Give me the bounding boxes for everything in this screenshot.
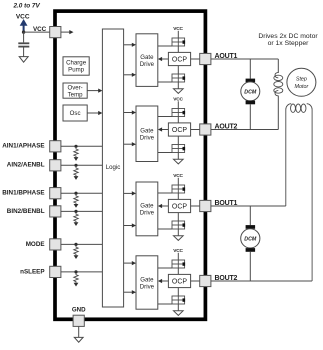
label AOUT2: [215, 123, 238, 130]
svg-text:Pump: Pump: [68, 67, 85, 74]
wire gate drive to high-side gate (AOUT1): [158, 45, 172, 47]
arrow logic to gate drive 3 (b): [124, 223, 136, 227]
net label VCC (BOUT2 high side): [173, 248, 183, 254]
net label VCC (AOUT1 high side): [173, 26, 183, 32]
wire gate drive to low-side gate (BOUT2): [158, 303, 172, 305]
wire gate drive to low-side gate (AOUT2): [158, 152, 172, 154]
OCP block (AOUT2): [168, 123, 190, 136]
pulldown resistor BIN1/BPHASE: [74, 195, 79, 208]
wire BOUT1 to DC motor M2: [249, 206, 251, 225]
wire node to capacitor: [23, 32, 25, 42]
IC block outline (motor driver): [55, 11, 205, 319]
motor M2 brush bottom: [246, 248, 256, 252]
arrow VCC into IC: [61, 30, 74, 34]
wire VCC to high-side FET (BOUT1): [177, 178, 179, 185]
net label VCC (AOUT2 high side): [173, 97, 183, 103]
wire low-side FET to ground (AOUT2): [177, 153, 179, 160]
pin AIN2/AENBL: [50, 160, 61, 171]
label nSLEEP: [20, 268, 45, 275]
label AOUT1: [215, 53, 238, 60]
svg-text:DCM: DCM: [244, 236, 257, 242]
logic block: [102, 29, 123, 307]
junction node VCC: [22, 30, 25, 33]
transistor low-side FET (AOUT2): [172, 145, 185, 153]
svg-text:OCP: OCP: [172, 278, 188, 285]
transistor low-side FET (AOUT1): [172, 74, 185, 82]
transistor low-side FET (BOUT1): [172, 221, 185, 229]
wire low-side FET to ground (AOUT1): [177, 82, 179, 89]
wire BIN2/BENBL to logic: [61, 210, 103, 212]
ground (BOUT2 low side): [174, 311, 184, 316]
label AIN2/AENBL: [7, 162, 45, 169]
wire low-side FET to ground (BOUT2): [177, 304, 179, 311]
OCP block (BOUT2): [168, 274, 190, 287]
pin BOUT2: [200, 275, 211, 286]
ground (AOUT2 low side): [174, 159, 184, 164]
wire OCP to low-side FET (AOUT1): [177, 66, 179, 74]
wire gate drive to high-side gate (AOUT2): [158, 116, 172, 118]
note drives 2x DC motor: [258, 33, 318, 40]
svg-text:OCP: OCP: [172, 56, 188, 63]
junction MODE pulldown: [74, 243, 77, 246]
motor M2 brush top: [246, 225, 256, 229]
svg-text:BIN2/BENBL: BIN2/BENBL: [7, 208, 45, 215]
wire OCP to low-side FET (BOUT1): [177, 213, 179, 221]
svg-text:GND: GND: [72, 307, 86, 314]
svg-text:Motor: Motor: [295, 84, 309, 90]
OCP block (AOUT1): [168, 52, 190, 65]
pulldown resistor AIN1/APHASE: [74, 148, 79, 161]
pulldown resistor MODE: [74, 246, 79, 259]
svg-text:AIN2/AENBL: AIN2/AENBL: [7, 162, 45, 169]
junction AIN2/AENBL pulldown: [74, 164, 77, 167]
junction BIN1/BPHASE pulldown: [74, 192, 77, 195]
supply arrow VCC: [20, 19, 28, 31]
svg-text:Drive: Drive: [140, 61, 155, 68]
svg-text:Drive: Drive: [140, 283, 155, 290]
transistor high-side FET (AOUT1): [172, 38, 185, 46]
svg-text:VCC: VCC: [16, 14, 30, 21]
pin BOUT1: [200, 200, 211, 211]
stepper winding A (inductor): [274, 59, 283, 130]
wire AIN1/APHASE to logic: [61, 145, 103, 147]
wire high-side FET to OCP (AOUT2): [177, 117, 179, 123]
arrow logic to gate drive 2 (a): [124, 110, 136, 114]
stepper winding B (inductor loop): [286, 104, 312, 281]
wire gate drive to low-side gate (BOUT1): [158, 228, 172, 230]
wire VCC to high-side FET (AOUT1): [177, 31, 179, 38]
gate drive block 1: [136, 34, 158, 87]
pin BIN2/BENBL: [50, 206, 61, 217]
wire high-side FET to OCP (AOUT1): [177, 46, 179, 52]
wire OCP to pin AOUT2: [191, 129, 200, 131]
arrow logic to gate drive 4 (a): [124, 261, 136, 265]
svg-text:BIN1/BPHASE: BIN1/BPHASE: [2, 190, 44, 197]
pulldown resistor BIN2/BENBL: [74, 213, 79, 226]
svg-text:Logic: Logic: [106, 164, 121, 171]
oscillator block: [63, 105, 87, 121]
net label VCC (supply): [16, 14, 30, 21]
arrow OCP to gate drive (BOUT1): [158, 204, 169, 208]
net label VCC (BOUT1 high side): [173, 173, 183, 179]
svg-text:AIN1/APHASE: AIN1/APHASE: [2, 143, 44, 150]
arrow logic to gate drive 1 (a): [124, 43, 136, 47]
svg-text:Gate: Gate: [140, 128, 154, 135]
arrow osc to logic: [87, 111, 102, 115]
label GND: [72, 307, 86, 314]
svg-text:Gate: Gate: [140, 203, 154, 210]
svg-text:Drive: Drive: [140, 210, 155, 217]
transistor high-side FET (BOUT1): [172, 185, 185, 193]
label supply voltage 2.0 to 7V: [12, 3, 40, 10]
pulldown resistor AIN2/AENBL: [74, 167, 79, 180]
svg-text:DCM: DCM: [244, 89, 257, 95]
arrow OCP to gate drive (AOUT2): [158, 127, 169, 131]
charge pump block: [63, 57, 89, 75]
ground (GND pin): [74, 337, 83, 342]
gate drive block 3: [136, 182, 158, 236]
svg-text:nSLEEP: nSLEEP: [20, 268, 45, 275]
capacitor C1 (bypass): [18, 43, 29, 56]
pin AOUT2: [200, 124, 211, 135]
arrow logic to gate drive 2 (b): [124, 142, 136, 146]
wire gate drive to high-side gate (BOUT1): [158, 192, 172, 194]
wire VCC to high-side FET (AOUT2): [177, 101, 179, 108]
wire low-side FET to ground (BOUT1): [177, 229, 179, 236]
arrow logic to gate drive 4 (b): [124, 290, 136, 294]
wire OCP to pin BOUT2: [191, 280, 200, 282]
pin nSLEEP: [50, 266, 61, 277]
motor M2 (DCM): [241, 229, 260, 248]
wire high-side FET to OCP (BOUT2): [177, 268, 179, 274]
wire OCP to low-side FET (AOUT2): [177, 136, 179, 144]
wire OCP to pin BOUT1: [191, 205, 200, 207]
label AIN1/APHASE: [2, 143, 44, 150]
wire OCP to pin AOUT1: [191, 58, 200, 60]
svg-text:OCP: OCP: [172, 203, 188, 210]
wire BOUT2 to winding B: [211, 280, 312, 282]
arrow over-temp to logic: [87, 89, 102, 93]
wire high-side FET to OCP (BOUT1): [177, 193, 179, 199]
arrow logic to gate drive 1 (b): [124, 73, 136, 77]
junction AIN1/APHASE pulldown: [74, 145, 77, 148]
step motor: [287, 68, 316, 96]
wire BIN1/BPHASE to logic: [61, 192, 103, 194]
motor M1 (DCM): [241, 82, 260, 101]
gate drive block 2: [136, 106, 158, 162]
wire gate drive to high-side gate (BOUT2): [158, 267, 172, 269]
over-temp block: [63, 83, 87, 98]
svg-text:Gate: Gate: [140, 276, 154, 283]
label BOUT1: [215, 200, 238, 207]
label BOUT2: [215, 275, 238, 282]
svg-text:MODE: MODE: [26, 241, 45, 248]
wire DC motor M1 to AOUT2: [249, 104, 251, 129]
transistor low-side FET (BOUT2): [172, 296, 185, 304]
ground (capacitor): [19, 57, 28, 63]
pin GND: [73, 315, 84, 326]
arrow logic to gate drive 3 (a): [124, 191, 136, 195]
gate drive block 4: [136, 256, 158, 309]
svg-text:Step: Step: [296, 76, 307, 82]
svg-text:Drive: Drive: [140, 135, 155, 142]
wire OCP to low-side FET (BOUT2): [177, 288, 179, 296]
svg-text:OCP: OCP: [172, 127, 188, 134]
wire VCC to high-side FET (BOUT2): [177, 253, 179, 260]
svg-text:Temp: Temp: [68, 91, 84, 98]
transistor high-side FET (AOUT2): [172, 109, 185, 117]
junction nSLEEP pulldown: [74, 270, 77, 273]
wire VCC node to pin: [24, 31, 50, 33]
note or 1x stepper: [268, 40, 310, 47]
ground (BOUT1 low side): [174, 236, 184, 241]
OCP block (BOUT1): [168, 199, 190, 212]
junction BIN2/BENBL pulldown: [74, 210, 77, 213]
pin MODE: [50, 239, 61, 250]
ground (AOUT1 low side): [174, 89, 184, 94]
svg-text:Gate: Gate: [140, 54, 154, 61]
wire AOUT1 to DC motor M1: [249, 59, 251, 79]
arrow OCP to gate drive (AOUT1): [158, 57, 169, 61]
motor M1 brush top: [246, 79, 256, 83]
pin AOUT1: [200, 53, 211, 64]
wire AIN2/AENBL to logic: [61, 164, 103, 166]
transistor high-side FET (BOUT2): [172, 260, 185, 268]
svg-text:or 1x Stepper: or 1x Stepper: [268, 40, 310, 47]
wire DC motor M2 to BOUT2: [249, 252, 251, 281]
svg-text:Osc: Osc: [70, 110, 81, 117]
label BIN2/BENBL: [7, 208, 45, 215]
motor M1 brush bottom: [246, 101, 256, 105]
wire gate drive to low-side gate (AOUT1): [158, 81, 172, 83]
wire AOUT1 to winding A: [211, 58, 278, 60]
arrow OCP to gate drive (BOUT2): [158, 279, 169, 283]
wire MODE to logic: [61, 243, 103, 245]
wire GND pin to ground: [78, 326, 80, 337]
svg-text:VCC: VCC: [33, 26, 47, 33]
svg-text:2.0 to 7V: 2.0 to 7V: [12, 3, 40, 10]
pin AIN1/APHASE: [50, 141, 61, 152]
svg-text:Charge: Charge: [66, 59, 87, 66]
pin VCC: [50, 27, 61, 38]
wire AOUT2 to winding A: [211, 129, 278, 131]
label MODE: [26, 241, 45, 248]
pin BIN1/BPHASE: [50, 188, 61, 199]
label VCC at pin: [33, 26, 47, 33]
pulldown resistor nSLEEP: [74, 273, 79, 286]
wire BOUT1 to winding B: [211, 205, 286, 207]
wire nSLEEP to logic: [61, 271, 103, 273]
label BIN1/BPHASE: [2, 190, 44, 197]
